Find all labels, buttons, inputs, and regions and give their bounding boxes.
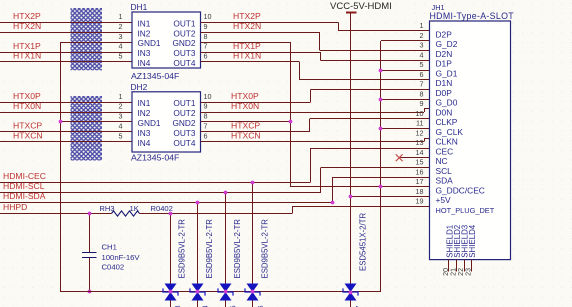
- svg-text:HTX1P: HTX1P: [13, 41, 41, 51]
- wire ground rail: [60, 291, 381, 293]
- svg-text:RH3: RH3: [99, 204, 114, 213]
- crosshatch region 1: [71, 8, 103, 70]
- svg-text:OUT1: OUT1: [173, 98, 196, 108]
- svg-text:D2P: D2P: [436, 29, 453, 39]
- svg-text:G_DDC/CEC: G_DDC/CEC: [436, 185, 485, 195]
- svg-text:CLKN: CLKN: [436, 137, 458, 147]
- junction rail esd1: [169, 290, 173, 294]
- wire HTX1N to DH1 pin 5: [0, 61, 132, 63]
- svg-text:12: 12: [416, 128, 424, 137]
- svg-text:23: 23: [466, 268, 473, 276]
- svg-text:OUT4: OUT4: [173, 138, 196, 148]
- wire bus to JH1.2: [381, 40, 430, 42]
- wire HDMI-SCL to JH1.15: [0, 192, 321, 194]
- junction bus pin8: [379, 98, 383, 102]
- svg-text:OUT2: OUT2: [173, 108, 196, 118]
- svg-text:GND2: GND2: [172, 118, 195, 128]
- svg-text:HTX2P: HTX2P: [13, 11, 41, 21]
- svg-text:9: 9: [204, 22, 208, 31]
- svg-text:SDA: SDA: [436, 176, 454, 186]
- junction DH2 GND at x291: [289, 120, 293, 124]
- svg-text:ESD9B5VL-2-TR: ESD9B5VL-2-TR: [233, 219, 242, 279]
- svg-text:OUT4: OUT4: [173, 58, 196, 68]
- svg-text:3: 3: [119, 32, 123, 41]
- svg-text:GND2: GND2: [172, 38, 195, 48]
- svg-text:100nF-16V: 100nF-16V: [102, 253, 141, 262]
- svg-text:9: 9: [420, 99, 424, 108]
- svg-text:1: 1: [119, 12, 123, 21]
- svg-text:HTXCN: HTXCN: [13, 131, 43, 141]
- junction rail esd4: [251, 290, 255, 294]
- svg-text:HTXCP: HTXCP: [13, 121, 42, 131]
- wire HTX2N DH1.9 to JH1.3: [201, 32, 320, 34]
- svg-text:IN3: IN3: [138, 48, 151, 58]
- wire HTX1N DH1.6 to JH1.6: [201, 61, 300, 63]
- svg-text:22: 22: [458, 268, 465, 276]
- svg-text:1: 1: [420, 21, 424, 30]
- svg-text:R0402: R0402: [151, 204, 173, 213]
- junction bus pin11: [379, 127, 383, 131]
- wire HTX0P to DH2 pin 1: [0, 102, 132, 104]
- connector JH1 shield pins 20-23: [448, 260, 450, 272]
- svg-text:HTX0P: HTX0P: [13, 91, 41, 101]
- svg-text:IN4: IN4: [138, 58, 151, 68]
- svg-text:G_CLK: G_CLK: [436, 127, 464, 137]
- wire bus to JH1.5: [381, 70, 430, 72]
- svg-text:IN4: IN4: [138, 138, 151, 148]
- svg-text:IN2: IN2: [138, 28, 151, 38]
- svg-text:OUT2: OUT2: [173, 28, 196, 38]
- wire HTX0N to DH2 pin 2: [0, 112, 132, 114]
- junction VCC pin18: [349, 195, 353, 199]
- svg-text:19: 19: [416, 197, 424, 206]
- svg-text:AZ1345-04F: AZ1345-04F: [131, 152, 179, 162]
- svg-text:DH1: DH1: [131, 2, 148, 12]
- svg-text:D0N: D0N: [436, 107, 453, 117]
- svg-text:2: 2: [420, 31, 424, 40]
- wire JH1.14 NC stub: [400, 157, 430, 159]
- svg-text:HTX2P: HTX2P: [233, 11, 261, 21]
- junction SDA / esd2: [196, 201, 200, 205]
- buffer IC DH1 AZ1345-04F: [132, 12, 201, 68]
- svg-text:15: 15: [416, 158, 424, 167]
- wire HTXCN DH2.6 to JH1.12: [201, 141, 425, 143]
- junction HHPD / CH1: [88, 212, 92, 216]
- wire bus to JH1.11: [381, 128, 430, 130]
- wire HTX2P DH1.10 to JH1.1: [201, 22, 339, 24]
- junction bus pin5: [379, 69, 383, 73]
- svg-text:HDMI-SCL: HDMI-SCL: [3, 181, 45, 191]
- svg-text:IN2: IN2: [138, 108, 151, 118]
- svg-text:16: 16: [416, 167, 424, 176]
- wire HTX2P to DH1 pin 1: [0, 22, 132, 24]
- svg-text:OUT3: OUT3: [173, 48, 196, 58]
- svg-text:IN1: IN1: [138, 18, 151, 28]
- svg-text:OUT1: OUT1: [173, 18, 196, 28]
- no-connect X JH1.14: [396, 154, 403, 161]
- junction SDA corner: [331, 201, 335, 205]
- svg-text:14: 14: [416, 148, 424, 157]
- svg-text:17: 17: [416, 177, 424, 186]
- wire HDMI-SDA to JH1.16: [0, 202, 332, 204]
- svg-text:CLKP: CLKP: [436, 117, 458, 127]
- svg-text:D1N: D1N: [436, 78, 453, 88]
- junction CEC / esd4: [251, 181, 255, 185]
- svg-text:HDMI-CEC: HDMI-CEC: [3, 171, 46, 181]
- svg-text:5: 5: [420, 60, 424, 69]
- svg-text:3: 3: [420, 41, 424, 50]
- capacitor CH1 100nF-16V C0402: [89, 213, 91, 252]
- junction SCL / esd3: [224, 191, 228, 195]
- wire HTX0P DH2.10 to JH1.7: [201, 102, 311, 104]
- svg-text:SCL: SCL: [436, 166, 453, 176]
- svg-text:DH2: DH2: [131, 82, 148, 92]
- svg-text:HDMI-SDA: HDMI-SDA: [3, 191, 46, 201]
- svg-text:+5V: +5V: [436, 195, 452, 205]
- svg-text:HTX0P: HTX0P: [231, 91, 259, 101]
- svg-text:IN3: IN3: [138, 128, 151, 138]
- wire HTXCP DH2.7 to JH1.10: [201, 131, 310, 133]
- svg-text:2: 2: [119, 22, 123, 31]
- junction bus pin17: [379, 185, 383, 189]
- esd diode DE5 ESD5451X-2/TR: [345, 284, 357, 293]
- svg-text:4: 4: [119, 42, 123, 51]
- junction ground / DH2 GND1: [59, 120, 63, 124]
- wire GND to DH2 pin 3: [60, 121, 132, 123]
- svg-text:ESD9B5VL-2-TR: ESD9B5VL-2-TR: [205, 219, 214, 279]
- crosshatch region 2: [71, 96, 103, 161]
- svg-text:VCC-5V-HDMI: VCC-5V-HDMI: [330, 1, 392, 12]
- wire ground bus vertical: [380, 41, 382, 292]
- svg-text:ESD5451X-2/TR: ESD5451X-2/TR: [359, 213, 368, 271]
- wire HTX1P DH1.7 to JH1.4: [201, 52, 321, 54]
- svg-text:CEC: CEC: [436, 146, 454, 156]
- wire HTX2N to DH1 pin 2: [0, 32, 132, 34]
- junction HHPD / esd1: [169, 212, 173, 216]
- wire VCC vertical: [350, 13, 352, 307]
- svg-text:SHIELD4: SHIELD4: [468, 224, 477, 258]
- svg-text:10: 10: [204, 92, 212, 101]
- svg-text:NC: NC: [436, 156, 448, 166]
- svg-text:GND1: GND1: [138, 118, 161, 128]
- wire GND2 DH1.8 down at x291: [201, 42, 291, 44]
- svg-text:HOT_PLUG_DET: HOT_PLUG_DET: [436, 206, 495, 215]
- wire HHPD right segment to JH1.19: [140, 213, 293, 215]
- svg-text:GND1: GND1: [138, 38, 161, 48]
- svg-text:5: 5: [119, 52, 123, 61]
- svg-text:CH1: CH1: [102, 243, 117, 252]
- wire GND2 DH2.8 to gnd vertical: [201, 121, 291, 123]
- power bar VCC-5V-HDMI: [346, 12, 357, 14]
- wire HTX0N DH2.9 to JH1.9: [201, 112, 425, 114]
- svg-text:3: 3: [119, 112, 123, 121]
- wire ground vertical: [60, 42, 62, 292]
- esd diode DE4 ESD9B5VL-2-TR: [252, 182, 254, 307]
- svg-text:D0P: D0P: [436, 88, 453, 98]
- svg-text:HTX1N: HTX1N: [13, 51, 41, 61]
- svg-text:10: 10: [416, 109, 424, 118]
- svg-text:18: 18: [416, 187, 424, 196]
- svg-text:HTX2N: HTX2N: [13, 21, 41, 31]
- svg-text:13: 13: [416, 138, 424, 147]
- esd diode DE3 ESD9B5VL-2-TR: [225, 192, 227, 307]
- svg-text:ESD9B5VL-2-TR: ESD9B5VL-2-TR: [178, 219, 187, 279]
- svg-text:7: 7: [420, 80, 424, 89]
- wire HTXCN to DH2 pin 5: [0, 141, 132, 143]
- wire HTX1P to DH1 pin 4: [0, 52, 132, 54]
- wire HDMI-CEC to JH1.13: [0, 182, 310, 184]
- wire bus to JH1.8: [381, 99, 430, 101]
- svg-text:21: 21: [451, 268, 458, 276]
- svg-text:G_D2: G_D2: [436, 39, 458, 49]
- svg-text:7: 7: [204, 122, 208, 131]
- junction VCC / esd5: [349, 291, 353, 295]
- svg-text:OUT3: OUT3: [173, 128, 196, 138]
- wire HTXCP to DH2 pin 4: [0, 131, 132, 133]
- svg-text:D2N: D2N: [436, 49, 453, 59]
- svg-text:HDMI-Type-A-SLOT: HDMI-Type-A-SLOT: [430, 11, 515, 21]
- junction rail esd2: [196, 290, 200, 294]
- svg-text:C0402: C0402: [102, 263, 125, 272]
- svg-text:ESD9B5VL-2-TR: ESD9B5VL-2-TR: [261, 219, 270, 279]
- svg-text:G_D1: G_D1: [436, 68, 458, 78]
- svg-text:D1P: D1P: [436, 59, 453, 69]
- svg-text:5: 5: [119, 131, 123, 140]
- svg-text:10: 10: [204, 12, 212, 21]
- svg-text:G_D0: G_D0: [436, 98, 458, 108]
- svg-text:4: 4: [119, 122, 123, 131]
- buffer IC DH2 AZ1345-04F: [132, 92, 201, 152]
- wire VCC to JH1.18 +5V: [351, 196, 430, 198]
- wire HHPD left segment: [0, 213, 112, 215]
- svg-text:4: 4: [420, 50, 424, 59]
- wire GND to DH1 pin 3: [60, 42, 132, 44]
- svg-text:6: 6: [420, 70, 424, 79]
- esd diode DE1 ESD9B5VL-2-TR: [170, 213, 172, 307]
- svg-text:6: 6: [204, 131, 208, 140]
- svg-text:AZ1345-04F: AZ1345-04F: [131, 71, 179, 81]
- svg-text:2: 2: [119, 102, 123, 111]
- svg-text:HHPD: HHPD: [3, 202, 27, 212]
- junction rail esd3: [224, 290, 228, 294]
- svg-text:8: 8: [204, 32, 208, 41]
- svg-text:HTX0N: HTX0N: [13, 101, 41, 111]
- svg-text:8: 8: [420, 89, 424, 98]
- svg-text:20: 20: [443, 268, 450, 276]
- junction CH1 / ground rail: [88, 290, 92, 294]
- svg-text:11: 11: [416, 119, 423, 128]
- svg-text:IN1: IN1: [138, 98, 151, 108]
- svg-text:1: 1: [119, 92, 123, 101]
- esd diode DE2 ESD9B5VL-2-TR: [197, 202, 199, 307]
